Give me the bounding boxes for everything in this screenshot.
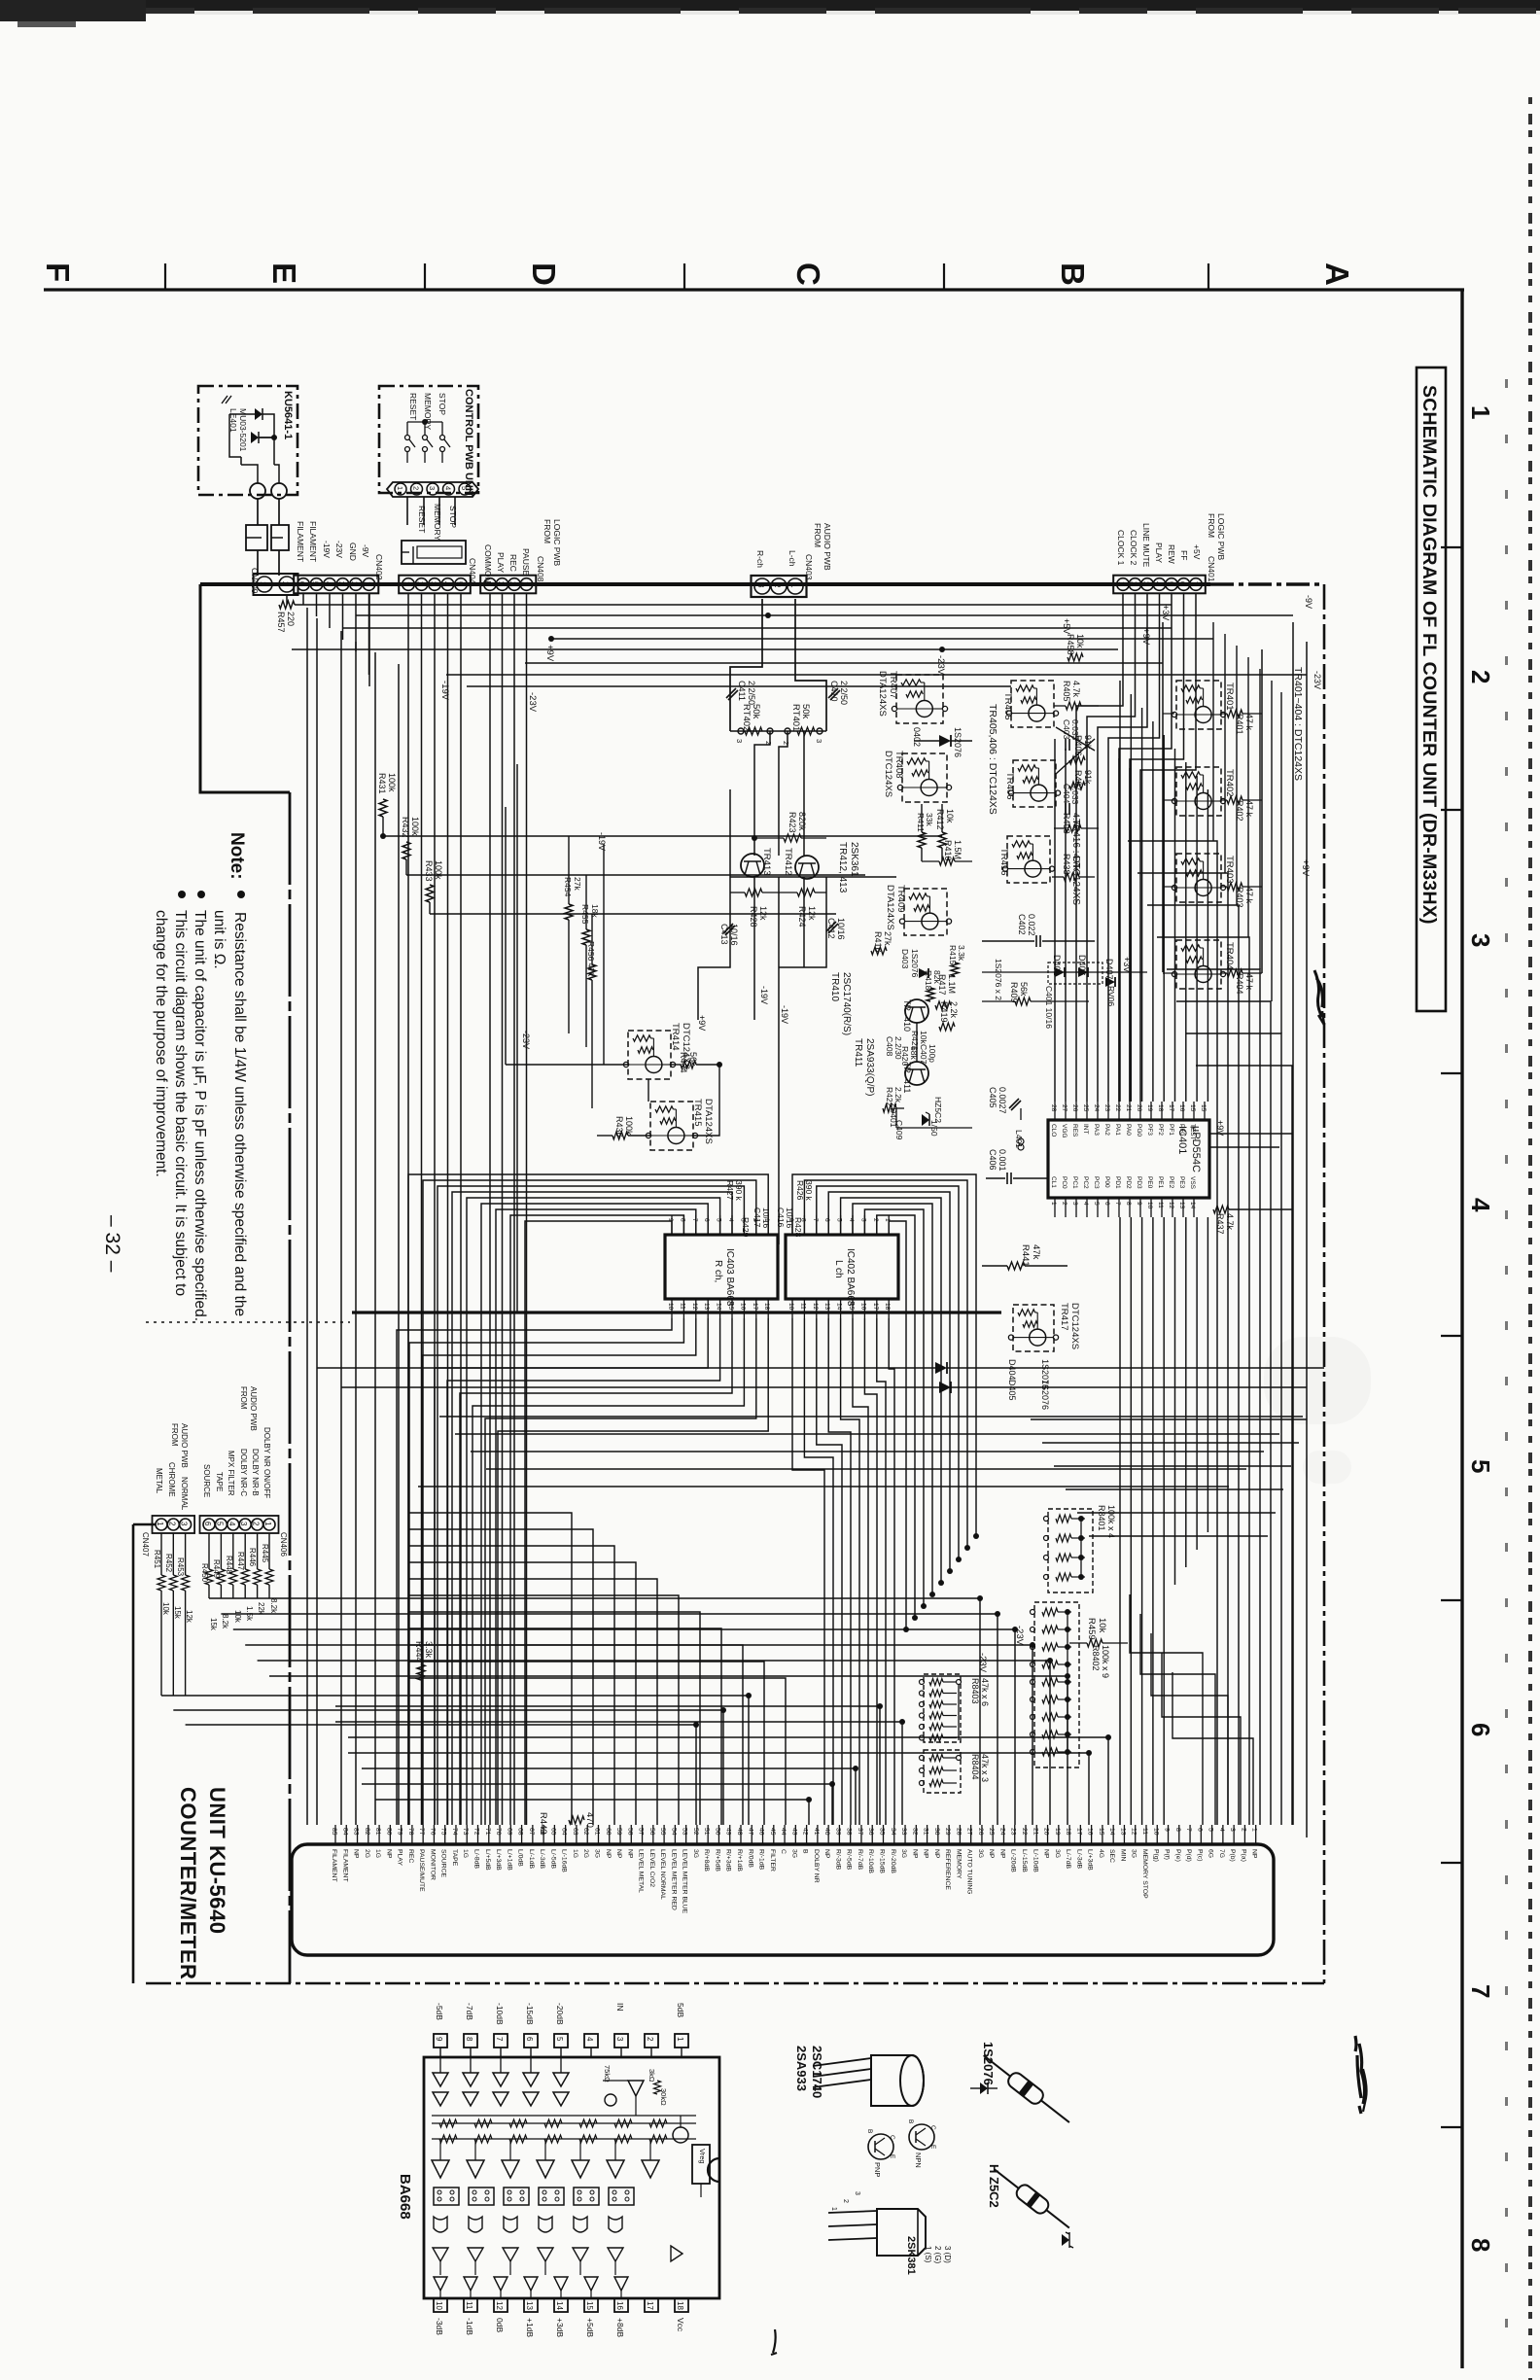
svg-text:R457: R457: [276, 612, 286, 633]
svg-text:4: 4: [442, 581, 451, 586]
svg-text:– 32 –: – 32 –: [101, 1215, 123, 1273]
svg-text:D405: D405: [1007, 1380, 1017, 1401]
svg-text:33: 33: [900, 1828, 907, 1836]
svg-text:RT402: RT402: [741, 704, 752, 731]
svg-text:13: 13: [823, 1303, 830, 1311]
svg-text:PE2: PE2: [1168, 1176, 1174, 1189]
svg-text:+5V: +5V: [1192, 544, 1202, 560]
svg-text:B: B: [866, 2129, 873, 2133]
svg-text:R/0dB: R/0dB: [747, 1849, 753, 1868]
svg-text:R446: R446: [248, 1548, 257, 1567]
svg-text:CN409: CN409: [250, 568, 260, 594]
BA668 input amp: [628, 2081, 644, 2096]
svg-text:L/+1dB: L/+1dB: [506, 1849, 512, 1871]
svg-text:L/+5dB: L/+5dB: [484, 1849, 491, 1871]
svg-text:RT401: RT401: [790, 704, 801, 731]
BA668 resistor ladder: [432, 2122, 696, 2124]
svg-text:E: E: [929, 2145, 936, 2150]
svg-text:100k x 4: 100k x 4: [1106, 1505, 1116, 1538]
svg-text:5: 5: [836, 1218, 843, 1222]
svg-text:L/-15dB: L/-15dB: [1021, 1849, 1028, 1872]
svg-text:2.2/50: 2.2/50: [839, 681, 849, 705]
svg-text:PF3: PF3: [1146, 1124, 1153, 1136]
wire -23V distribution 2: [467, 685, 1011, 687]
svg-text:1: 1: [1251, 1828, 1258, 1832]
svg-text:COMMON: COMMON: [483, 544, 493, 583]
BA668 or gates: [433, 2248, 448, 2261]
transistor cell TR405: [1011, 681, 1054, 727]
svg-text:17: 17: [646, 2301, 654, 2310]
svg-text:81: 81: [374, 1828, 381, 1836]
svg-text:This circuit diagram shows: This circuit diagram shows the basic cir…: [172, 910, 189, 1296]
svg-text:L/+3dB: L/+3dB: [495, 1849, 502, 1871]
wire D405 row: [341, 1386, 939, 1388]
svg-text:CN407: CN407: [141, 1532, 150, 1557]
wire KU5641-1 outputs: [259, 437, 274, 465]
svg-text:1S2076 x 2: 1S2076 x 2: [994, 959, 1003, 1000]
transistor TR410: [905, 999, 928, 1023]
svg-text:100p: 100p: [927, 1044, 937, 1063]
svg-text:8: 8: [465, 2037, 473, 2042]
transistor cell TR406: [1013, 760, 1056, 807]
svg-text:R/-20dB: R/-20dB: [890, 1849, 896, 1873]
svg-text:R448: R448: [225, 1556, 233, 1575]
svg-text:3: 3: [1071, 1202, 1078, 1206]
svg-text:E: E: [889, 2154, 895, 2159]
svg-text:32: 32: [911, 1828, 918, 1836]
svg-text:18: 18: [884, 1303, 891, 1311]
svg-text:CLOCK 1: CLOCK 1: [1116, 530, 1126, 566]
svg-text:RESET: RESET: [417, 506, 427, 533]
svg-text:1: 1: [521, 581, 530, 586]
svg-text:LEVEL METER BLUE: LEVEL METER BLUE: [682, 1849, 688, 1914]
svg-text:4: 4: [1082, 1202, 1089, 1206]
border frame top ruler: [44, 288, 1464, 291]
transistor cell TR401: [1176, 681, 1221, 729]
svg-text:3: 3: [735, 739, 744, 743]
svg-text:-9V: -9V: [1304, 595, 1313, 609]
svg-text:CL1: CL1: [1050, 1176, 1057, 1188]
svg-text:PAUSE/MUTE: PAUSE/MUTE: [418, 1849, 425, 1892]
transistor symbol PNP: [868, 2134, 893, 2159]
svg-text:58: 58: [626, 1828, 633, 1836]
svg-text:6: 6: [1196, 1828, 1203, 1832]
svg-text:2SC1740: 2SC1740: [810, 2046, 824, 2098]
svg-text:R417: R417: [937, 974, 947, 996]
svg-text:NP: NP: [1251, 1849, 1258, 1859]
svg-text:C416: C416: [776, 1207, 786, 1228]
svg-text:10k: 10k: [919, 1031, 928, 1044]
wire bundle nest IC402 bottom: [792, 1318, 824, 1825]
svg-text:R409: R409: [1009, 982, 1019, 1003]
svg-text:2SA933(Q/P): 2SA933(Q/P): [864, 1038, 875, 1096]
wire +9V distribution: [551, 638, 1213, 640]
svg-text:17: 17: [1168, 1104, 1174, 1112]
svg-text:3: 3: [429, 581, 437, 586]
svg-text:6: 6: [203, 1522, 212, 1526]
svg-text:-20dB: -20dB: [555, 2003, 565, 2025]
svg-text:CN401: CN401: [1207, 556, 1216, 582]
svg-text:10k: 10k: [233, 1610, 242, 1624]
svg-text:GND: GND: [348, 542, 358, 561]
BA668 comparator triangles mid: [432, 2160, 449, 2178]
svg-text:12k: 12k: [758, 906, 768, 921]
wire mid verticals x520: [505, 807, 507, 1065]
svg-text:15: 15: [727, 1303, 734, 1311]
svg-text:C402: C402: [1017, 914, 1027, 935]
svg-text:R433: R433: [424, 860, 434, 882]
svg-text:STOP: STOP: [448, 506, 458, 528]
svg-text:R452: R452: [164, 1554, 173, 1573]
svg-text:MIN: MIN: [1119, 1849, 1126, 1862]
BA668 Vreg box: [692, 2145, 710, 2184]
svg-text:PA0: PA0: [1125, 1124, 1132, 1136]
svg-text:23: 23: [1010, 1828, 1017, 1836]
svg-text:2SK361: 2SK361: [849, 842, 859, 877]
package drawing 1S2076 axial diode: [979, 2049, 1074, 2129]
svg-text:1S2076: 1S2076: [1040, 1380, 1050, 1410]
svg-text:2: 2: [350, 581, 359, 586]
wire distribution y668: [292, 648, 1118, 650]
svg-text:4: 4: [1466, 1198, 1495, 1212]
svg-text:2.2k: 2.2k: [893, 1087, 903, 1103]
svg-text:15k: 15k: [209, 1618, 218, 1631]
svg-text:TR412: TR412: [783, 848, 793, 876]
BA668 latch boxes: [434, 2187, 459, 2205]
svg-text:10/16: 10/16: [761, 1207, 771, 1229]
main bus heavy line mid: [352, 1311, 1001, 1313]
svg-text:R424: R424: [797, 906, 807, 927]
svg-text:4: 4: [585, 2037, 594, 2042]
svg-text:TR410: TR410: [829, 972, 840, 1001]
wire -9V distribution: [331, 604, 1172, 606]
svg-text:R458: R458: [1066, 634, 1075, 655]
svg-text:2SK381: 2SK381: [905, 2236, 917, 2275]
FL unit pin stubs and numbers: [334, 1825, 336, 1844]
svg-text:1: 1: [830, 2207, 837, 2211]
svg-text:18: 18: [676, 2301, 684, 2310]
wire D404 row: [317, 1367, 935, 1369]
svg-text:9: 9: [1136, 1202, 1142, 1206]
wire distribution y682: [525, 662, 1163, 664]
svg-text:2G: 2G: [364, 1849, 370, 1858]
svg-text:33k: 33k: [925, 813, 934, 826]
svg-text:C405: C405: [988, 1087, 997, 1108]
wire left mid verticals: [568, 836, 570, 904]
svg-text:15: 15: [848, 1303, 855, 1311]
svg-text:TR417: TR417: [1059, 1303, 1069, 1331]
svg-text:2G: 2G: [582, 1849, 589, 1858]
svg-text:3 (D): 3 (D): [943, 2246, 952, 2263]
svg-text:CN403: CN403: [804, 554, 814, 580]
svg-text:15: 15: [585, 2301, 594, 2310]
svg-text:100k: 100k: [387, 773, 397, 792]
svg-text:6: 6: [823, 1218, 830, 1222]
svg-text:22: 22: [1021, 1828, 1028, 1836]
svg-text:+3V: +3V: [1122, 957, 1132, 972]
svg-text:16: 16: [739, 1303, 746, 1311]
svg-text:P(e): P(e): [1174, 1849, 1181, 1862]
svg-text:10k: 10k: [1097, 1618, 1107, 1633]
svg-text:SOURCE: SOURCE: [440, 1849, 447, 1878]
wire distribution y633: [356, 614, 1293, 616]
svg-text:PC0: PC0: [1061, 1176, 1067, 1189]
svg-text:3G: 3G: [1054, 1849, 1061, 1858]
svg-text:3G: 3G: [977, 1849, 984, 1858]
svg-text:PNP: PNP: [873, 2162, 882, 2177]
svg-text:H Z5C2: H Z5C2: [987, 2164, 1001, 2208]
svg-text:LEVEL METER RED: LEVEL METER RED: [670, 1849, 677, 1910]
svg-text:NP: NP: [615, 1849, 622, 1859]
resistor network R8401 100k x 4: [1048, 1509, 1093, 1592]
svg-text:NP: NP: [933, 1849, 940, 1859]
svg-text:R418: R418: [924, 970, 933, 991]
svg-text:PA1: PA1: [1114, 1124, 1121, 1136]
svg-text:19: 19: [1054, 1828, 1061, 1836]
svg-text:4.7k: 4.7k: [1071, 681, 1081, 698]
svg-text:27: 27: [1061, 1104, 1067, 1112]
chain line fragment left mid: [146, 1321, 350, 1323]
svg-text:20: 20: [1043, 1828, 1050, 1836]
svg-text:7: 7: [1114, 1202, 1121, 1206]
svg-text:SEC: SEC: [1108, 1849, 1115, 1863]
wire bundle CN401 to IC401 left pins: [1054, 739, 1056, 1102]
svg-text:1S2076: 1S2076: [910, 949, 920, 978]
svg-text:REW: REW: [1167, 544, 1176, 564]
svg-text:43: 43: [790, 1828, 797, 1836]
svg-text:16: 16: [859, 1303, 866, 1311]
svg-text:3G: 3G: [790, 1849, 797, 1858]
svg-text:36: 36: [867, 1828, 874, 1836]
svg-text:PD1: PD1: [1114, 1176, 1121, 1189]
IC401 bottom pin stubs: [1054, 1198, 1056, 1217]
IC U403 BA668 R ch: [665, 1235, 778, 1299]
svg-text:12k: 12k: [185, 1610, 193, 1624]
svg-text:PC2: PC2: [1082, 1176, 1089, 1189]
svg-text:12: 12: [1131, 1828, 1137, 1836]
svg-text:13: 13: [703, 1303, 710, 1311]
svg-text:R/-7dB: R/-7dB: [857, 1849, 863, 1871]
svg-text:4: 4: [227, 1522, 236, 1526]
svg-text:56k: 56k: [1019, 982, 1029, 997]
wire TR402 left: [1163, 799, 1174, 801]
pen mark bottom left small: [771, 2329, 777, 2355]
svg-text:LEVEL METAL: LEVEL METAL: [638, 1849, 645, 1893]
svg-text:Vreg: Vreg: [698, 2149, 707, 2164]
transistor cell TR403: [1176, 854, 1221, 902]
wire CN408 pins down: [489, 594, 491, 1825]
pen mark bottom right: [1355, 2036, 1365, 2114]
svg-text:13: 13: [1178, 1202, 1185, 1209]
BA668 internal wires: [432, 2115, 696, 2117]
svg-text:15k: 15k: [173, 1606, 182, 1620]
svg-text:SCHEMATIC DIAGRAM OF FL COUNTE: SCHEMATIC DIAGRAM OF FL COUNTER UNIT (DR…: [1418, 385, 1440, 925]
svg-text:390 k: 390 k: [734, 1180, 744, 1202]
svg-text:C: C: [790, 262, 826, 286]
package drawing HZ5C2 axial zener: [990, 2163, 1074, 2234]
wire TR403 left: [1163, 886, 1174, 888]
svg-text:49: 49: [725, 1828, 732, 1836]
svg-text:-23V: -23V: [1312, 671, 1322, 689]
svg-text:FROM: FROM: [239, 1386, 248, 1410]
svg-text:C404: C404: [1062, 784, 1071, 804]
svg-text:1: 1: [156, 1522, 164, 1526]
svg-text:R423: R423: [787, 812, 797, 833]
svg-text:NP: NP: [911, 1849, 918, 1859]
svg-text:2: 2: [842, 2199, 849, 2203]
svg-text:L-ch: L-ch: [787, 550, 797, 567]
border frame right edge: [1460, 289, 1463, 2368]
svg-text:1.5k: 1.5k: [245, 1606, 254, 1622]
svg-text:D407: D407: [1104, 959, 1114, 980]
svg-text:3.3k: 3.3k: [424, 1641, 434, 1659]
package drawing 2SK381 TO-92: [877, 2209, 926, 2256]
svg-text:24: 24: [1093, 1104, 1100, 1112]
svg-text:RESET: RESET: [408, 393, 418, 420]
svg-text:31: 31: [923, 1828, 929, 1836]
svg-text:LEVEL NORMAL: LEVEL NORMAL: [659, 1849, 666, 1900]
svg-text:11: 11: [465, 2301, 473, 2310]
svg-text:DTC124XS: DTC124XS: [883, 751, 893, 797]
package drawing 2SA933/2SC1740 TO-92: [871, 2055, 924, 2106]
svg-text:L ch: L ch: [833, 1260, 844, 1278]
svg-text:PF1: PF1: [1168, 1124, 1174, 1136]
svg-text:L/-7dB: L/-7dB: [1065, 1849, 1071, 1869]
svg-text:29: 29: [944, 1828, 951, 1836]
svg-text:C417: C417: [752, 1207, 762, 1228]
svg-text:47k: 47k: [1031, 1244, 1041, 1260]
svg-text:6: 6: [1178, 581, 1187, 586]
svg-text:R428: R428: [749, 906, 758, 927]
svg-text:85: 85: [331, 1828, 337, 1836]
svg-text:PF0: PF0: [1178, 1124, 1185, 1136]
svg-text:42: 42: [802, 1828, 809, 1836]
svg-text:3kΩ: 3kΩ: [647, 2069, 656, 2082]
svg-text:R-ch: R-ch: [755, 550, 765, 568]
svg-text:CN408: CN408: [536, 556, 545, 582]
svg-text:TR: TR: [902, 999, 912, 1011]
svg-text:CN404: CN404: [468, 558, 477, 584]
svg-text:6: 6: [297, 581, 306, 586]
wire right column verticals: [1162, 622, 1164, 972]
transistor cell TR404: [1176, 940, 1221, 989]
wire bundle right upper verticals: [1212, 622, 1214, 841]
svg-text:The unit of capacitor is µF, P: The unit of capacitor is µF, P is pF unl…: [192, 910, 208, 1321]
BA668 output triangles: [434, 2277, 447, 2291]
svg-text:27: 27: [966, 1828, 973, 1836]
svg-text:2: 2: [773, 583, 782, 588]
svg-text:0.0027: 0.0027: [997, 1087, 1007, 1114]
svg-text:21: 21: [1032, 1828, 1038, 1836]
svg-text:10: 10: [787, 1303, 794, 1311]
svg-text:CHROME: CHROME: [167, 1462, 176, 1497]
svg-text:2SA933: 2SA933: [794, 2046, 809, 2091]
svg-text:R/-10dB: R/-10dB: [867, 1849, 874, 1873]
svg-text:19: 19: [1146, 1104, 1153, 1112]
svg-text:40: 40: [823, 1828, 830, 1836]
svg-text:NP: NP: [626, 1849, 633, 1859]
svg-text:R/-15dB: R/-15dB: [879, 1849, 886, 1873]
svg-text:30: 30: [933, 1828, 940, 1836]
wire CN401 pins down: [1076, 594, 1123, 1102]
svg-text:FROM: FROM: [542, 519, 552, 543]
svg-text:14: 14: [555, 2301, 564, 2310]
svg-text:15: 15: [1098, 1828, 1104, 1836]
svg-text:Note:: Note:: [227, 832, 247, 880]
svg-text:410: 410: [902, 1017, 912, 1032]
svg-text:8.2k: 8.2k: [269, 1598, 278, 1614]
svg-text:C413: C413: [719, 924, 729, 945]
svg-text:2: 2: [252, 1522, 261, 1526]
svg-text:14: 14: [1108, 1828, 1115, 1836]
svg-text:1: 1: [396, 486, 404, 490]
transistor symbol NPN: [909, 2124, 934, 2150]
svg-text:100k: 100k: [624, 1116, 634, 1136]
svg-text:C: C: [929, 2125, 936, 2130]
svg-text:TR412, 413: TR412, 413: [837, 842, 848, 893]
svg-text:R443: R443: [538, 1812, 548, 1835]
svg-text:47 k: 47 k: [1244, 887, 1254, 904]
svg-text:D: D: [526, 262, 562, 286]
scan noise top edge: [0, 0, 1540, 11]
svg-text:4.7k: 4.7k: [1071, 854, 1081, 871]
svg-text:R453: R453: [176, 1557, 185, 1577]
svg-text:5: 5: [311, 581, 320, 586]
wire bundle lower horizontals B: [161, 1695, 749, 1697]
svg-text:11: 11: [679, 1303, 685, 1310]
svg-text:PLAY: PLAY: [397, 1849, 403, 1866]
svg-text:A: A: [1319, 262, 1355, 286]
svg-text:NP: NP: [605, 1849, 612, 1859]
svg-text:470: 470: [584, 1812, 595, 1828]
svg-text:68: 68: [517, 1828, 524, 1836]
svg-text:-23V: -23V: [935, 655, 946, 676]
svg-text:5: 5: [1166, 581, 1174, 586]
svg-text:C411: C411: [737, 681, 747, 701]
transistor cell TR409 DTA124XS: [904, 889, 947, 935]
svg-text:11: 11: [799, 1303, 806, 1310]
svg-text:-23V: -23V: [527, 692, 538, 713]
svg-text:R/-5dB: R/-5dB: [846, 1849, 853, 1871]
svg-text:+5V: +5V: [1062, 618, 1071, 634]
svg-text:B: B: [907, 2119, 914, 2123]
svg-text:LOGIC PWB: LOGIC PWB: [1216, 513, 1226, 561]
svg-text:27k: 27k: [573, 877, 582, 891]
svg-text:PA2: PA2: [1103, 1124, 1110, 1136]
svg-text:2 (G): 2 (G): [933, 2246, 942, 2264]
svg-text:1G: 1G: [462, 1849, 469, 1858]
svg-text:PA3: PA3: [1093, 1124, 1100, 1136]
diode symbol in KU5641-1: [255, 408, 262, 420]
svg-text:P(g): P(g): [1152, 1849, 1159, 1862]
svg-text:1: 1: [1117, 581, 1126, 586]
svg-text:DTA124XS: DTA124XS: [877, 671, 888, 717]
wire bundle nest IC403 bottom-left: [397, 1318, 672, 1825]
svg-text:FILAMENT: FILAMENT: [296, 521, 305, 562]
svg-text:PC1: PC1: [1071, 1176, 1078, 1189]
svg-text:6: 6: [703, 1218, 710, 1222]
svg-text:R427: R427: [725, 1180, 735, 1201]
svg-text:10: 10: [435, 2301, 443, 2310]
svg-text:L/-20dB: L/-20dB: [1010, 1849, 1017, 1872]
unit boundary chain line right: [1323, 584, 1326, 1983]
svg-text:3G: 3G: [593, 1849, 600, 1858]
svg-text:9: 9: [1164, 1828, 1171, 1832]
svg-text:65: 65: [549, 1828, 556, 1836]
svg-text:PF2: PF2: [1157, 1124, 1164, 1136]
wire IC401 left side: [982, 1107, 1048, 1109]
svg-text:5: 5: [555, 2037, 564, 2042]
